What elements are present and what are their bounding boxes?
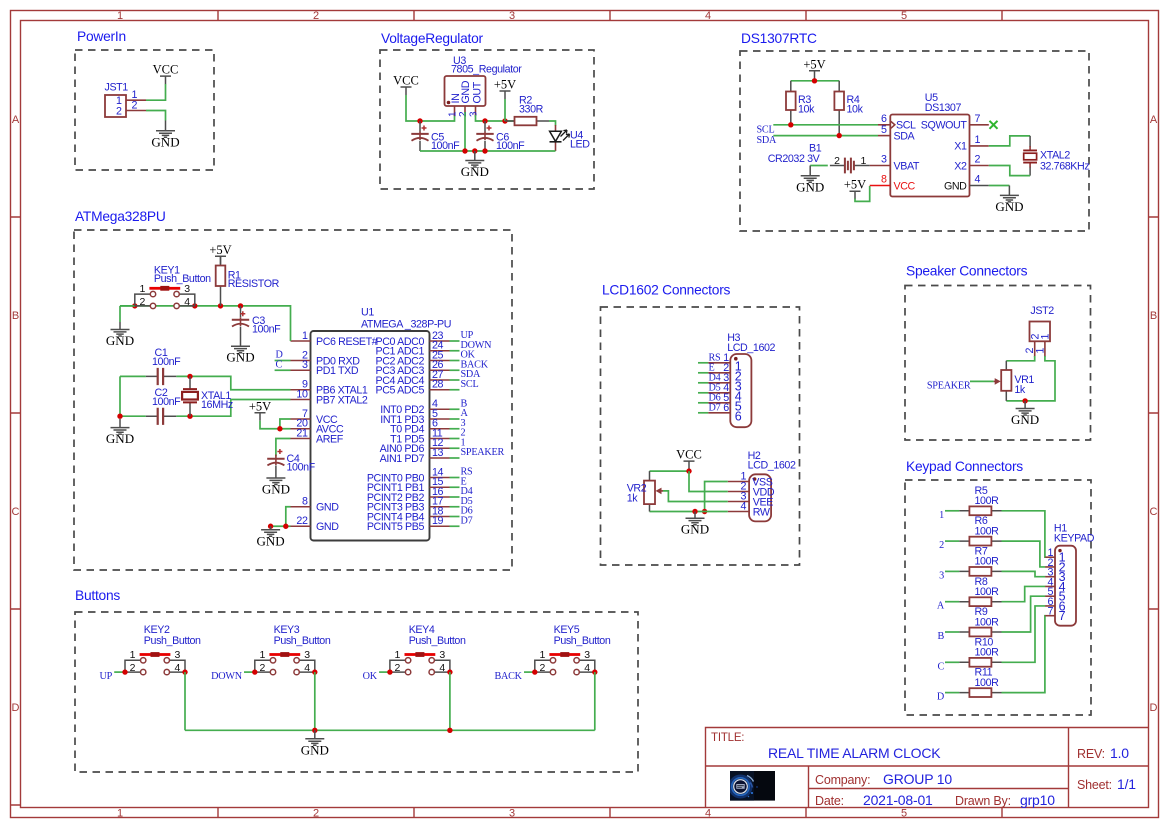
pullup rail wire [791, 80, 839, 81]
wire R9 to H1 pin 5 [1002, 596, 1046, 632]
svg-text:PD1 TXD: PD1 TXD [316, 365, 359, 377]
power flag VCC (VoltageRegulator) [393, 74, 419, 96]
net stub BACK [524, 671, 535, 673]
wire battery to GND [810, 165, 828, 167]
svg-text:PowerIn: PowerIn [77, 29, 126, 44]
svg-text:PC5 ADC5: PC5 ADC5 [376, 385, 425, 397]
wire SDA net [773, 135, 878, 137]
svg-text:1: 1 [117, 808, 123, 820]
KEY3 pin numbers [259, 649, 310, 674]
svg-text:4: 4 [184, 296, 190, 308]
svg-text:4: 4 [584, 662, 590, 674]
capacitor C4 [267, 449, 284, 478]
frame row labels left [12, 114, 20, 714]
svg-text:SPEAKER: SPEAKER [461, 447, 505, 458]
svg-text:3: 3 [881, 154, 887, 166]
svg-text:A: A [937, 601, 945, 612]
svg-text:SCL: SCL [461, 379, 479, 390]
svg-text:100nF: 100nF [152, 356, 181, 368]
H2 pin 4 RW [728, 501, 771, 519]
svg-text:KEY2: KEY2 [144, 624, 170, 636]
svg-text:4: 4 [705, 10, 711, 22]
JST2 pin numbers inside [1030, 334, 1052, 340]
U1 pin 27 PC4 ADC4 [376, 369, 460, 387]
U3 pin numbers rotated [448, 111, 480, 117]
svg-text:Drawn By:: Drawn By: [955, 794, 1011, 808]
wire lead gnd (PowerIn) [165, 121, 167, 131]
svg-text:7: 7 [1059, 609, 1066, 623]
title block outline [706, 728, 1149, 808]
resistor R5 [959, 506, 1001, 515]
section Keypad Connectors box [905, 480, 1091, 715]
svg-text:3: 3 [302, 359, 308, 371]
svg-text:GROUP 10: GROUP 10 [883, 771, 952, 787]
svg-text:100R: 100R [975, 556, 1000, 568]
connector H1 body [1055, 546, 1076, 626]
U3 first pin dot [447, 101, 451, 105]
junction dot speaker gnd [1022, 398, 1027, 403]
svg-text:100R: 100R [975, 586, 1000, 598]
wire lead gnd buttons [314, 730, 316, 739]
JST2 pin numbers outside [1024, 348, 1046, 354]
wire VCC down to input rail [406, 95, 455, 121]
svg-text:2: 2 [116, 106, 122, 118]
section VoltageRegulator box [380, 50, 594, 189]
svg-text:SCL: SCL [757, 124, 775, 135]
H1 pin 7 [1045, 606, 1065, 624]
pin numbers JST1 outside [132, 89, 138, 112]
wire pin8 GND [286, 507, 291, 527]
KEY2 pin numbers [130, 649, 181, 674]
resistor R1 [216, 256, 226, 306]
svg-text:X2: X2 [954, 160, 967, 172]
capacitor C6 [476, 121, 493, 151]
svg-text:32.768KHz: 32.768KHz [1040, 160, 1089, 172]
junction dot KEY5 right [592, 669, 597, 674]
ground GND (C3) [226, 346, 254, 365]
wire KEY5 to gnd rail [594, 672, 596, 730]
wire pin22 GND [271, 525, 291, 527]
resistor R11 [959, 688, 1001, 697]
crystal XTAL1 [182, 376, 198, 416]
junction dot gnd stem [472, 148, 477, 153]
wire pin4 to GND [989, 185, 1010, 187]
junction dot pin2 gnd [462, 148, 467, 153]
svg-text:C: C [12, 506, 20, 518]
U1 pin 10 PB7 XTAL2 [291, 388, 368, 406]
net stub C [945, 661, 959, 663]
capacitor C5 [411, 121, 428, 151]
power flag VCC (PowerIn) [153, 63, 179, 85]
U5 pin 8 VCC [870, 185, 891, 187]
net stub 2 [945, 540, 959, 542]
U1 pin 9 PB6 XTAL1 [291, 379, 368, 397]
frame column ticks top [218, 11, 1002, 21]
wire X1 to crystal [989, 136, 1030, 146]
U5 pin 1 X1 [970, 145, 989, 147]
pin 2 of JST1 [126, 110, 146, 112]
wire KEY4 to gnd rail [449, 672, 451, 730]
U1 pin 15 PCINT1 PB1 [367, 476, 460, 494]
junction dot C3 top [238, 303, 243, 308]
ground rail wire (VoltageRegulator) [420, 150, 556, 152]
svg-text:Push_Button: Push_Button [409, 635, 466, 647]
U5 pin 4 GND [970, 185, 989, 187]
svg-text:4: 4 [175, 662, 181, 674]
svg-text:5: 5 [901, 10, 907, 22]
wire KEY2 to gnd rail [184, 672, 186, 730]
svg-text:OK: OK [363, 671, 378, 682]
svg-text:3: 3 [439, 649, 445, 661]
svg-text:GND: GND [316, 521, 339, 533]
push button KEY3 [255, 652, 315, 675]
svg-text:D: D [1150, 702, 1158, 714]
svg-text:KEY4: KEY4 [409, 624, 435, 636]
connector JST1 [105, 95, 126, 117]
KEY5 pin numbers [539, 649, 590, 674]
svg-text:2: 2 [939, 540, 944, 551]
svg-text:1k: 1k [627, 492, 639, 504]
svg-text:2: 2 [132, 100, 138, 112]
ground GND (KEY1) [106, 330, 134, 349]
svg-text:CR2032 3V: CR2032 3V [768, 153, 821, 165]
svg-text:AIN1 PD7: AIN1 PD7 [380, 453, 425, 465]
svg-text:1: 1 [975, 134, 981, 146]
svg-text:1k: 1k [1014, 384, 1026, 396]
U1 pin 26 PC3 ADC3 [376, 359, 460, 377]
svg-text:D7: D7 [461, 515, 473, 526]
H1 first pin dot [1058, 549, 1061, 552]
svg-text:Speaker Connectors: Speaker Connectors [906, 264, 1028, 279]
U1 pin 4 INT0 PD2 [380, 398, 459, 416]
wire SPEAKER net [970, 380, 994, 382]
IC U1 ATMEGA328P body [311, 331, 430, 541]
svg-text:LCD1602 Connectors: LCD1602 Connectors [602, 283, 731, 298]
svg-text:PCINT5 PB5: PCINT5 PB5 [367, 521, 425, 533]
ground GND (U1 power) [257, 530, 285, 549]
ground GND (battery) [796, 176, 824, 195]
svg-text:RESISTOR: RESISTOR [228, 278, 280, 290]
svg-text:5: 5 [901, 808, 907, 820]
wire +5V stub [504, 99, 506, 121]
svg-text:TITLE:: TITLE: [711, 732, 744, 744]
svg-text:19: 19 [432, 515, 444, 527]
svg-text:4: 4 [304, 662, 310, 674]
junction dot C6 bottom [482, 148, 487, 153]
svg-text:1: 1 [1034, 348, 1046, 354]
svg-text:1: 1 [861, 155, 867, 167]
wire R7 to H1 pin 3 [1002, 571, 1046, 576]
svg-text:JST1: JST1 [105, 82, 129, 94]
frame column labels bottom [117, 808, 907, 820]
U1 pin 19 PCINT5 PB5 [367, 515, 460, 533]
H1 pin 6 [1045, 596, 1065, 614]
U5 pin 5 SDA [878, 135, 890, 137]
H1 pin 4 [1045, 576, 1065, 594]
svg-text:8: 8 [302, 496, 308, 508]
resistor R7 [959, 567, 1001, 576]
push button KEY2 [125, 652, 185, 675]
svg-text:10k: 10k [798, 104, 815, 116]
H3 pin 1 [698, 352, 742, 374]
frame row ticks left [11, 217, 21, 805]
svg-text:7: 7 [1047, 606, 1053, 618]
svg-text:2: 2 [130, 662, 136, 674]
U1 pin 13 AIN1 PD7 [380, 447, 460, 465]
wire VCC stub LCD [688, 469, 690, 471]
power flag +5V (AVCC) [249, 399, 271, 421]
wire R2 to LED [549, 121, 556, 126]
svg-text:100R: 100R [975, 525, 1000, 537]
frame row ticks right [1149, 217, 1159, 609]
svg-text:4: 4 [975, 174, 981, 186]
junction dot R3 on SCL [788, 122, 793, 127]
junction dot +5V tap [502, 118, 507, 123]
svg-text:3: 3 [184, 283, 190, 295]
U1 pin 6 T0 PD4 [390, 418, 459, 436]
section LCD1602 Connectors box [601, 307, 800, 565]
wire KEY3 to gnd rail [314, 672, 316, 730]
regulator U3 body [445, 76, 486, 106]
capacitor C3 [232, 306, 249, 346]
svg-text:100R: 100R [975, 647, 1000, 659]
power flag +5V (R1) [209, 243, 231, 265]
svg-text:A: A [1150, 114, 1158, 126]
svg-text:DS1307RTC: DS1307RTC [741, 31, 817, 46]
H1 pin 3 [1045, 567, 1065, 585]
potentiometer VR2 [644, 471, 663, 511]
net stub C (pin3) [275, 369, 291, 371]
ground rail wire (Buttons) [185, 729, 595, 731]
junction dot rail KEY4 [447, 728, 452, 733]
section ATMega328PU box [74, 230, 512, 570]
svg-text:PB7 XTAL2: PB7 XTAL2 [316, 394, 368, 406]
junction dot AVCC [277, 426, 282, 431]
U1 pin 20 AVCC [291, 418, 344, 436]
net stub DOWN [244, 671, 255, 673]
svg-text:13: 13 [432, 447, 444, 459]
svg-text:SDA: SDA [757, 135, 778, 146]
svg-text:2: 2 [975, 154, 981, 166]
svg-text:D: D [12, 702, 20, 714]
svg-text:100R: 100R [975, 616, 1000, 628]
U5 pin 2 X2 [970, 165, 989, 167]
H3 pin 6 [698, 402, 742, 424]
svg-text:1.0: 1.0 [1110, 745, 1129, 761]
wire +5V to pullup rail [814, 79, 816, 82]
resistor R8 [959, 597, 1001, 606]
wire VEE to wiper [663, 491, 728, 502]
svg-text:2: 2 [313, 10, 319, 22]
section DS1307RTC box [740, 51, 1089, 231]
U1 pin 2 PD0 RXD [291, 349, 361, 367]
wire lead gnd pins [270, 526, 272, 530]
ground GND (Buttons) [301, 739, 329, 758]
U1 pin 23 PC0 ADC0 [376, 330, 460, 348]
svg-text:10: 10 [296, 388, 308, 400]
svg-text:LED: LED [570, 139, 590, 151]
wire AREF to C4 [276, 439, 291, 457]
svg-text:7805_Regulator: 7805_Regulator [451, 64, 522, 76]
potentiometer VR1 [994, 361, 1012, 401]
svg-text:2: 2 [834, 155, 840, 167]
svg-text:C: C [1150, 506, 1158, 518]
svg-text:22: 22 [296, 515, 308, 527]
wire lead gnd C1C2 [119, 419, 121, 428]
H2 pin 2 VDD [728, 481, 775, 499]
U1 pin 28 PC5 ADC5 [376, 379, 460, 397]
svg-text:LCD_1602: LCD_1602 [748, 460, 796, 472]
svg-text:2: 2 [395, 662, 401, 674]
U1 pin 16 PCINT2 PB2 [367, 486, 460, 504]
push button KEY4 [390, 652, 450, 675]
push button KEY5 [535, 652, 595, 675]
section Buttons box [75, 612, 638, 772]
net stub D (pin2) [275, 360, 291, 362]
svg-text:ATMEGA _328P-PU: ATMEGA _328P-PU [361, 319, 451, 331]
no-connect X on pin 7 [990, 121, 998, 129]
U1 pin 24 PC1 ADC1 [376, 340, 460, 358]
svg-text:REAL TIME ALARM CLOCK: REAL TIME ALARM CLOCK [768, 745, 941, 761]
U1 pin 14 PCINT0 PB0 [367, 466, 460, 484]
ground GND (U5 pin4) [995, 195, 1023, 214]
H2 first pin dot [753, 477, 757, 481]
svg-text:KEY3: KEY3 [274, 624, 300, 636]
wire ground rail RW [650, 511, 728, 513]
net stub 1 [945, 510, 959, 512]
svg-text:21: 21 [296, 427, 308, 439]
ground GND (PowerIn) [151, 131, 179, 150]
svg-text:3: 3 [509, 10, 515, 22]
svg-text:8: 8 [881, 174, 887, 186]
svg-text:4: 4 [741, 501, 747, 513]
svg-text:1/1: 1/1 [1117, 776, 1136, 792]
svg-text:2021-08-01: 2021-08-01 [863, 792, 933, 808]
wire JST2 pin2 to VR1 [1006, 356, 1034, 361]
net stub 3 [945, 570, 959, 572]
U5 pin 3 VBAT [870, 165, 891, 167]
ground GND (C4) [262, 478, 290, 497]
connector H2 body [749, 474, 771, 521]
junction dot XTAL1 bottom [187, 414, 192, 419]
svg-text:Sheet:: Sheet: [1077, 778, 1112, 792]
wire JST2 pin1 to gnd rail [1006, 356, 1055, 401]
net stub D [945, 692, 959, 694]
U1 pin 8 GND [291, 496, 340, 514]
junction dot KEY2 left [122, 669, 127, 674]
svg-text:SPEAKER: SPEAKER [927, 380, 971, 391]
U1 pin 12 AIN0 PD6 [380, 437, 460, 455]
U3 pin 2 [464, 106, 466, 113]
resistor R10 [959, 658, 1001, 667]
U3 pin 3 [475, 106, 477, 116]
KEY4 pin numbers [395, 649, 446, 674]
junction dot KEY1 right [192, 303, 197, 308]
svg-text:100R: 100R [975, 677, 1000, 689]
svg-text:DOWN: DOWN [211, 671, 243, 682]
resistor R2 [505, 117, 549, 126]
svg-text:X1: X1 [954, 141, 967, 153]
svg-text:KEY5: KEY5 [554, 624, 580, 636]
capacitor C2 [146, 408, 177, 425]
svg-text:10k: 10k [847, 104, 864, 116]
svg-text:C: C [276, 359, 283, 370]
wire VSS drop [705, 482, 728, 512]
svg-text:Keypad Connectors: Keypad Connectors [906, 459, 1023, 474]
svg-text:100nF: 100nF [252, 324, 281, 336]
resistor R3 [786, 81, 796, 125]
net stub UP [114, 671, 125, 673]
junction dot XTAL1 top [187, 374, 192, 379]
wire SCL net [773, 124, 878, 126]
wire R5 to H1 pin 1 [1002, 511, 1046, 557]
svg-text:3: 3 [175, 649, 181, 661]
svg-text:4: 4 [705, 808, 711, 820]
svg-text:4: 4 [439, 662, 445, 674]
power flag +5V (VoltageRegulator) [494, 78, 516, 100]
ground GND (C1 C2) [106, 428, 134, 447]
svg-text:3: 3 [584, 649, 590, 661]
crystal XTAL2 [1023, 136, 1037, 176]
svg-text:VCC: VCC [894, 180, 916, 192]
section Speaker Connectors box [905, 286, 1091, 441]
U5 pin 6 SCL [878, 124, 890, 126]
resistor R9 [959, 628, 1001, 637]
svg-text:6: 6 [735, 410, 742, 424]
wire JST1 pin2 to GND [146, 111, 166, 121]
wire R6 to H1 pin 2 [1002, 541, 1046, 567]
svg-text:JST2: JST2 [1030, 305, 1054, 317]
junction dot gnd tap LCD [692, 509, 697, 514]
svg-text:1: 1 [130, 649, 136, 661]
U1 pin 22 GND [291, 515, 340, 533]
svg-text:U1: U1 [361, 307, 374, 319]
junction dot KEY1 left [132, 303, 137, 308]
svg-text:100nF: 100nF [152, 396, 181, 408]
wire R8 to H1 pin 4 [1002, 586, 1046, 601]
ground GND (LCD) [681, 518, 709, 537]
svg-text:330R: 330R [519, 104, 544, 116]
wire +5V to pin8 [855, 186, 870, 201]
pin 1 of JST1 [126, 99, 146, 101]
svg-text:Date:: Date: [815, 794, 844, 808]
U1 pin 18 PCINT4 PB4 [367, 505, 460, 523]
wire lead gnd LCD [694, 512, 696, 519]
wire lead gnd speaker [1024, 401, 1026, 409]
svg-text:B: B [12, 310, 19, 322]
svg-text:A: A [12, 114, 20, 126]
wire U3 pin3 output rail [476, 115, 515, 121]
svg-text:D7: D7 [709, 403, 721, 414]
svg-text:2: 2 [313, 808, 319, 820]
power flag +5V (DS1307 pullups) [803, 57, 825, 79]
svg-text:Push_Button: Push_Button [154, 273, 211, 285]
svg-text:3: 3 [939, 570, 944, 581]
wire U3 pin2 to ground rail [464, 112, 466, 151]
ground GND (VoltageRegulator) [461, 161, 489, 180]
junction dot KEY3 right [312, 669, 317, 674]
KEY1 pin numbers [139, 283, 190, 308]
svg-text:1: 1 [448, 111, 459, 117]
svg-text:16MHz: 16MHz [201, 399, 233, 411]
H3 pin 5 [698, 392, 742, 414]
U1 pin 3 PD1 TXD [291, 359, 359, 377]
net stub B [945, 631, 959, 633]
svg-text:B: B [937, 631, 944, 642]
svg-text:UP: UP [99, 671, 112, 682]
junction dot C6 top [482, 118, 487, 123]
svg-text:grp10: grp10 [1020, 792, 1055, 808]
